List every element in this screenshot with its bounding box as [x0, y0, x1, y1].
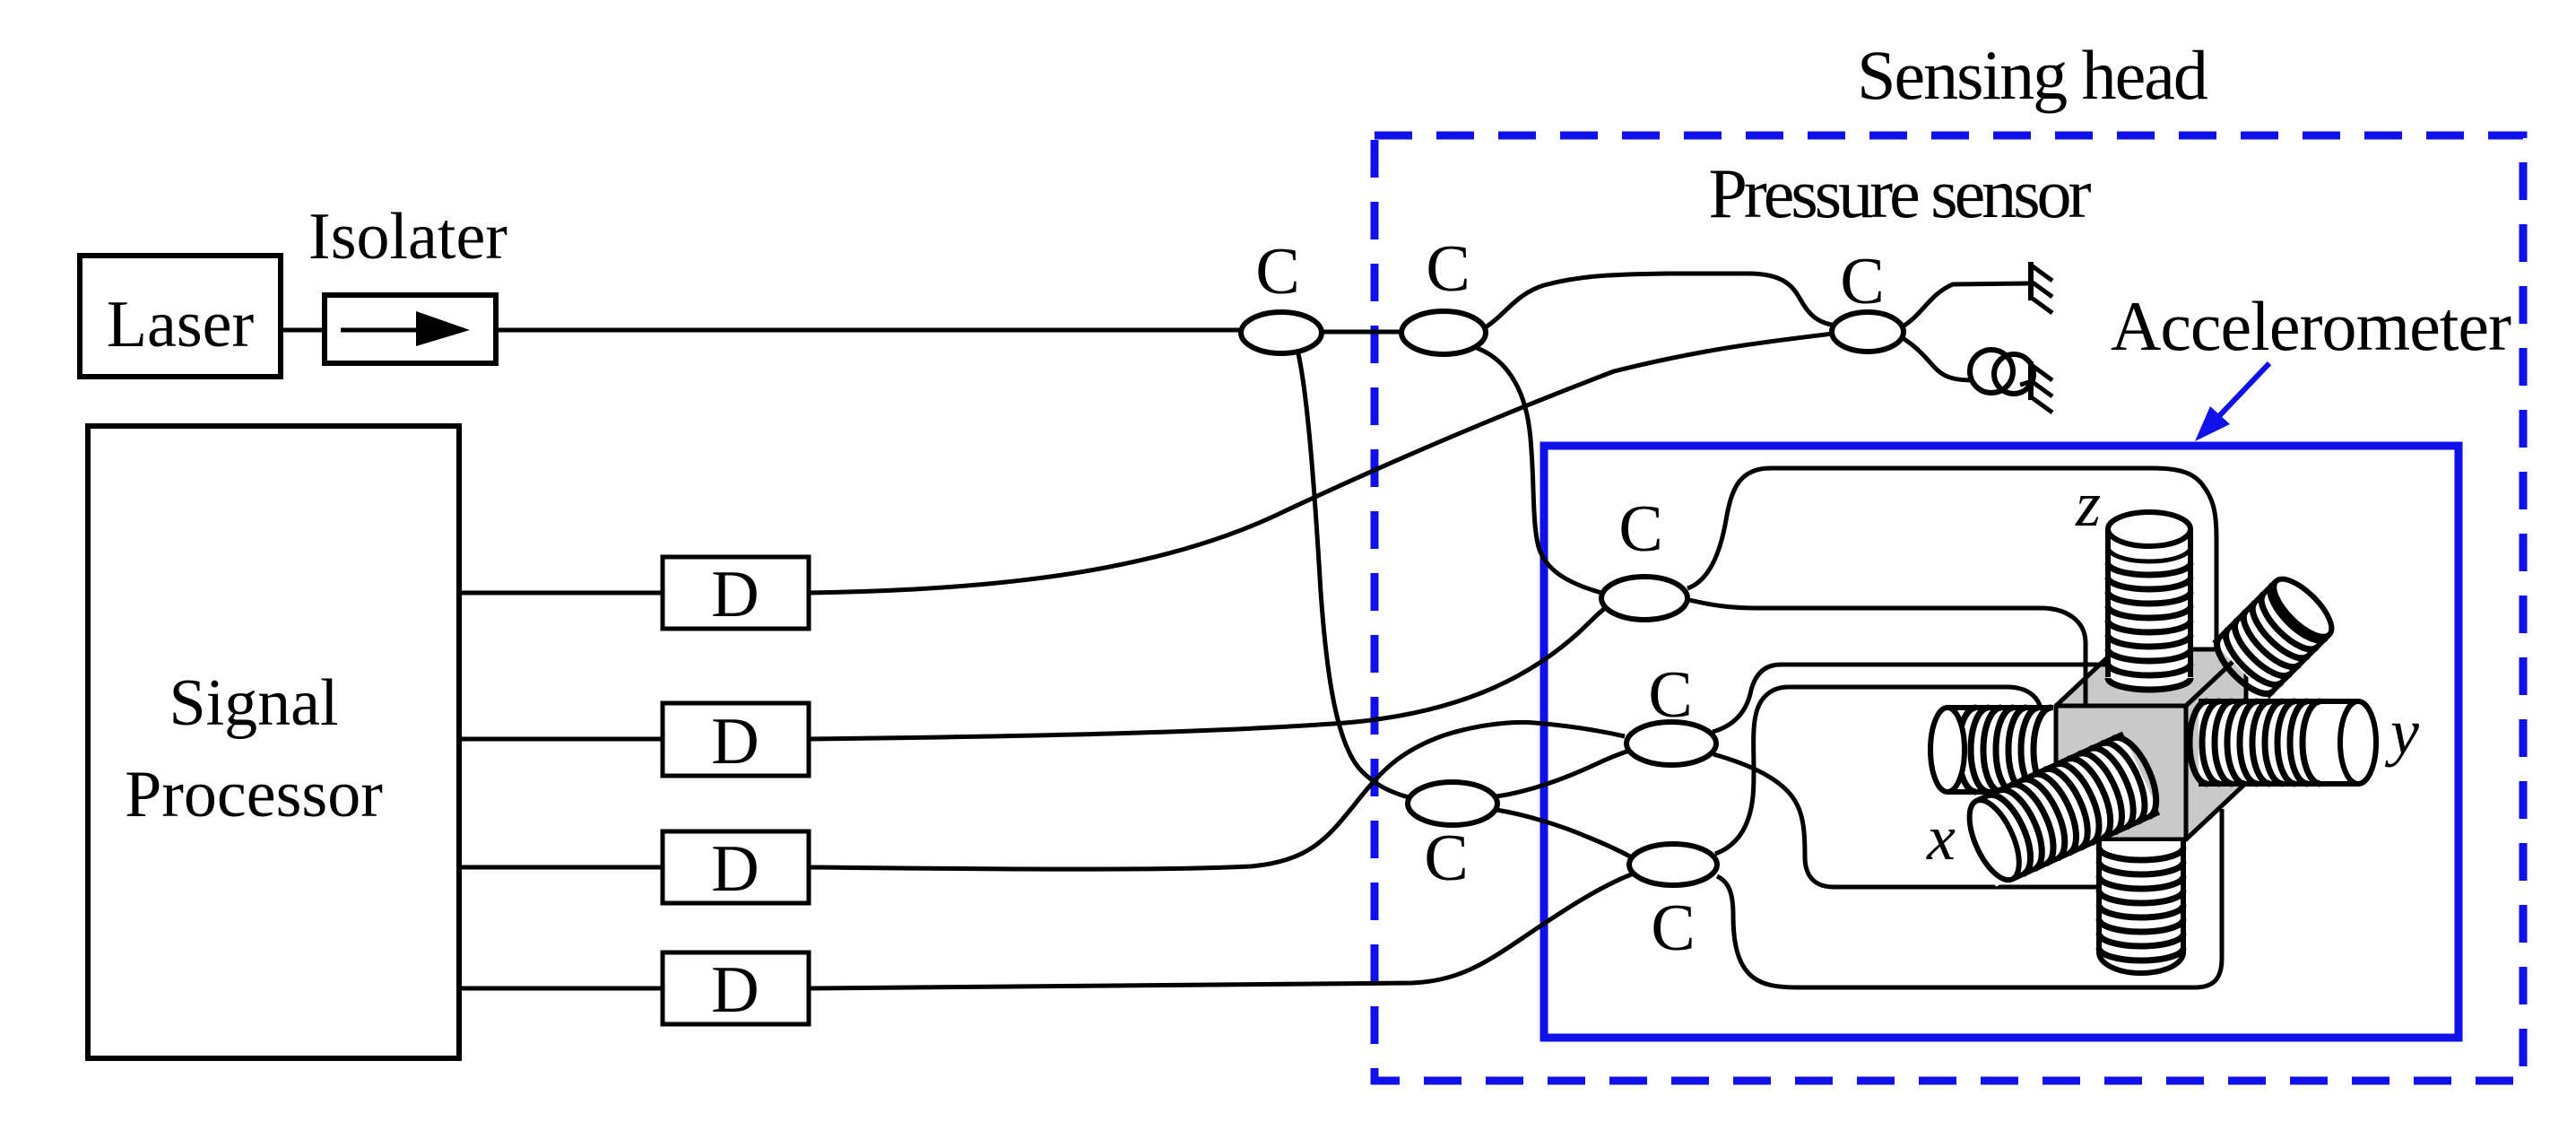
coupler C6	[1626, 722, 1716, 765]
svg-text:z: z	[2075, 468, 2101, 540]
fiber loop left circle	[1970, 350, 2013, 393]
svg-text:D: D	[711, 832, 759, 906]
svg-text:D: D	[711, 705, 759, 778]
signal processor box	[88, 426, 459, 1058]
wire C2 to C3 upper	[1484, 274, 1832, 328]
wire laser to isolator	[281, 328, 325, 333]
isolator arrow line	[341, 328, 421, 333]
wire loop to T2	[2020, 382, 2029, 385]
wire C4 top right to z-coil frame	[1687, 468, 2216, 651]
wire isolator to coupler C1	[496, 328, 1241, 333]
diag coil upper right	[2208, 569, 2341, 702]
wire D2 to C4	[809, 609, 1604, 739]
cube top face	[2056, 649, 2246, 706]
svg-text:C: C	[1255, 235, 1299, 309]
detector D4 box	[663, 952, 809, 1024]
wire C5 to C6	[1496, 751, 1629, 796]
svg-text:D: D	[711, 558, 759, 631]
detector D2 box	[663, 703, 809, 776]
x diag coil front	[1959, 731, 2166, 887]
svg-text:C: C	[1651, 891, 1695, 965]
detector D1 box	[663, 557, 809, 629]
svg-text:C: C	[1648, 658, 1692, 732]
svg-text:Sensing head: Sensing head	[1857, 36, 2208, 114]
wire C2 down to C4	[1477, 348, 1601, 593]
svg-text:C: C	[1840, 245, 1884, 318]
svg-text:Accelerometer: Accelerometer	[2111, 287, 2511, 365]
accelerometer pointer arrow	[2217, 363, 2269, 418]
termination T1	[2031, 262, 2052, 313]
termination T2	[2031, 361, 2052, 413]
z-coil bottom	[2099, 841, 2183, 973]
wire C4 bottom right horizontal	[1689, 600, 2086, 706]
wire C5 to C7	[1496, 810, 1630, 856]
isolator box	[325, 295, 496, 363]
accelerometer blue box	[1544, 446, 2459, 1038]
wire D4 to C7	[809, 874, 1634, 988]
wire SP to D2	[459, 737, 663, 742]
svg-text:C: C	[1426, 232, 1470, 306]
svg-text:C: C	[1618, 492, 1662, 566]
wire C1 down to C5	[1297, 350, 1409, 797]
coupler C1	[1241, 312, 1322, 353]
cube right face	[2186, 649, 2246, 839]
coupler C5	[1408, 782, 1497, 825]
svg-text:x: x	[1926, 802, 1956, 874]
fiber loop right circle	[1994, 354, 2034, 394]
isolator arrowhead	[416, 311, 470, 346]
x-axis left coil	[1930, 708, 2053, 792]
coupler C2	[1401, 311, 1486, 354]
wire C6 lower right loop	[1713, 754, 2107, 887]
wire D3 to C6	[809, 722, 1625, 869]
y-coil right	[2190, 701, 2376, 784]
wire SP to D1	[459, 591, 663, 596]
svg-text:Pressure sensor: Pressure sensor	[1708, 154, 2091, 232]
coupler C4	[1601, 577, 1687, 620]
cube front face	[2056, 706, 2186, 839]
wire SP to D3	[459, 865, 663, 870]
laser box	[80, 256, 281, 377]
wire C3 to termination T1	[1903, 283, 2028, 326]
coupler C7	[1629, 844, 1717, 885]
wire C6 upper right loop	[1713, 665, 2022, 732]
svg-text:D: D	[711, 953, 759, 1027]
svg-text:Signal: Signal	[169, 666, 338, 740]
wire C3 to loop and T2	[1903, 338, 1973, 380]
svg-text:C: C	[1424, 822, 1468, 895]
wire C6 upper-right horizontal over cube	[2017, 663, 2121, 667]
wire C7 lower right loop	[1717, 809, 2222, 987]
z-coil top	[2108, 512, 2190, 690]
wire C1 to C2	[1322, 330, 1401, 335]
coupler C3	[1832, 312, 1904, 352]
wire C7 upper right loop	[1715, 687, 2042, 854]
wire D1 to C3	[809, 334, 1833, 593]
svg-text:Isolater: Isolater	[308, 200, 507, 274]
detector boxes	[663, 557, 809, 1024]
svg-text:Processor: Processor	[125, 758, 383, 831]
detector D3 box	[663, 831, 809, 903]
sensing head dashed boundary	[1375, 135, 2523, 1081]
wire SP to D4	[459, 987, 663, 991]
svg-text:Laser: Laser	[107, 288, 254, 361]
